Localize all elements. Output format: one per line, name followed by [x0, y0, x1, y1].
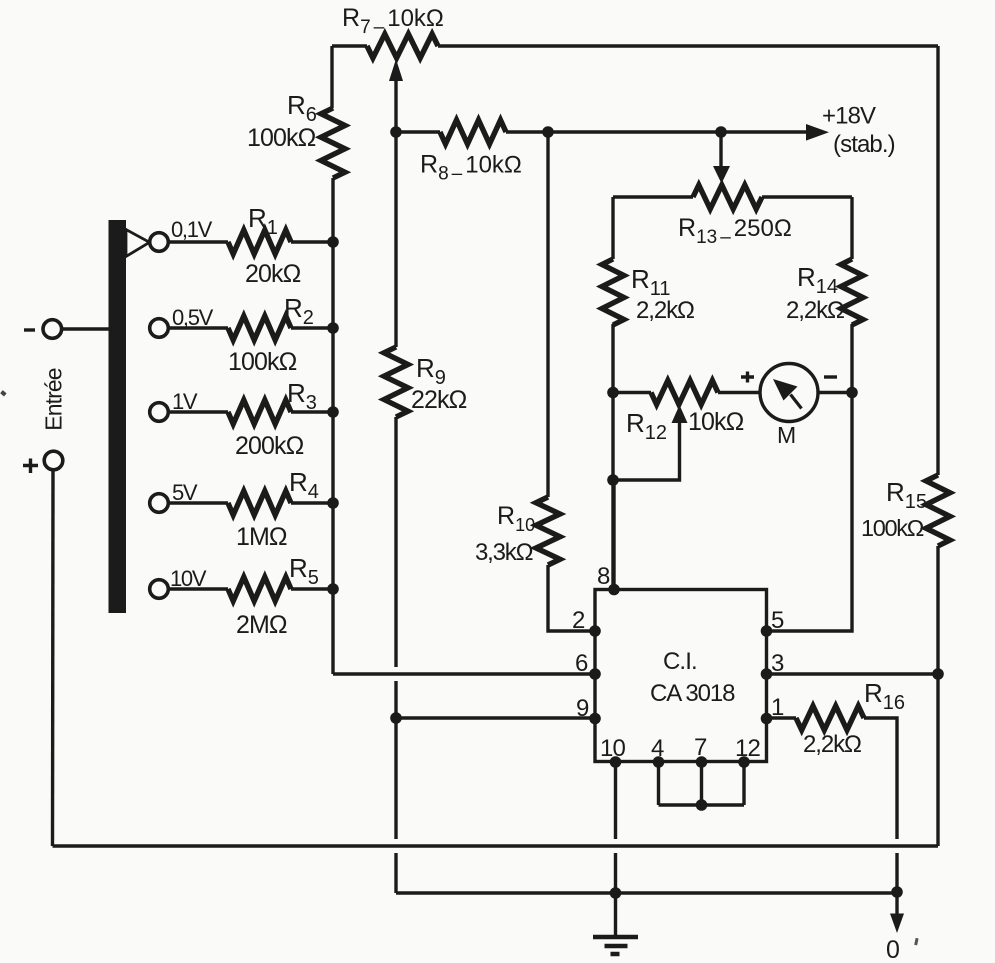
switch contact 10V [150, 580, 169, 599]
resistor R8 body [440, 120, 506, 144]
wire pin12 drop [742, 762, 745, 805]
pin 8 [608, 584, 620, 596]
wire contact to R3 [168, 410, 228, 413]
svg-text:C.I.: C.I. [663, 648, 697, 675]
junction R5-bus [327, 583, 339, 595]
wire strap 4-12 [659, 803, 745, 806]
junction R2-bus [327, 322, 339, 334]
pin 3 [761, 668, 773, 680]
wire zero stem [895, 892, 898, 914]
wire left bus down [331, 178, 334, 674]
svg-text:200kΩ: 200kΩ [235, 432, 304, 460]
pin 10 [610, 756, 622, 768]
resistor R6 body [321, 108, 345, 178]
junction R12 wiper return [607, 474, 619, 486]
svg-text:10V: 10V [170, 566, 207, 591]
svg-text:0,1V: 0,1V [171, 217, 213, 242]
svg-text:10kΩ: 10kΩ [688, 408, 744, 436]
svg-text:3,3kΩ: 3,3kΩ [475, 539, 533, 566]
wire R11 top [611, 197, 614, 259]
wire R16 drop2 [895, 853, 898, 892]
wire R14 down [767, 324, 853, 631]
switch contact 5V [150, 494, 169, 513]
resistor R3 body [228, 400, 291, 424]
resistor R5 body [228, 577, 291, 601]
resistor R4 body [228, 491, 291, 515]
ground [593, 937, 638, 954]
wire R12 to meter [718, 391, 760, 394]
arrow zero [890, 914, 904, 934]
terminal plus [44, 451, 63, 470]
svg-text:Entrée: Entrée [41, 368, 67, 430]
wire pin9 line [396, 716, 595, 719]
wire R8 left [396, 130, 440, 133]
resistor R15 body [926, 475, 950, 546]
svg-text:22kΩ: 22kΩ [411, 386, 467, 414]
resistor R11 body [602, 259, 624, 325]
resistor R10 body [536, 497, 560, 565]
switch contact 1V [150, 403, 169, 422]
junction pin3 right bus [932, 668, 944, 680]
svg-text:8: 8 [597, 563, 610, 590]
wire right bus lower [936, 546, 939, 846]
terminal minus [43, 320, 62, 339]
wire R14 top [850, 197, 853, 259]
wire bottom plus rail [53, 844, 939, 847]
junction R8 tap [390, 126, 402, 138]
label plus sign [23, 459, 38, 474]
wiper arrow of R13 [713, 166, 730, 184]
wire contact to R4 [168, 501, 228, 504]
svg-text:2,2kΩ: 2,2kΩ [786, 297, 844, 324]
pin 12 [738, 756, 750, 768]
label minus sign [24, 328, 35, 331]
wire R4 to bus [291, 501, 333, 504]
junction R3-bus [327, 406, 339, 418]
wire ground rail [396, 891, 897, 894]
wire R12 left lead [613, 391, 651, 394]
resistor R9 body [384, 347, 408, 417]
junction pin9 tap [390, 712, 402, 724]
svg-text:0: 0 [886, 936, 899, 963]
label meter plus [741, 372, 754, 383]
speck left margin [0, 390, 6, 396]
switch wiper triangle [126, 230, 150, 257]
svg-text:(stab.): (stab.) [833, 131, 895, 158]
pin 5 [761, 625, 773, 637]
wire meter to R14 column [818, 391, 852, 394]
speck near 0 [914, 938, 918, 945]
pin 1 [761, 713, 773, 725]
switch contact 0,1V [150, 233, 169, 252]
wire R13 left lead [613, 195, 693, 198]
wire contact to R1 [168, 240, 228, 243]
wire wiper bus low [394, 718, 397, 839]
svg-text:5V: 5V [172, 480, 198, 505]
wire pin3 line [767, 672, 939, 675]
wire R2 to bus [291, 326, 333, 329]
junction R4-bus [327, 497, 339, 509]
wire minus terminal to switch [61, 327, 110, 330]
wire R1 to bus [291, 240, 333, 243]
junction R13 wiper tap [715, 126, 727, 138]
pin 9 [589, 713, 601, 725]
wire pin6 line [333, 672, 595, 675]
resistor R16 body [796, 706, 864, 730]
potentiometer R12 body [651, 381, 718, 405]
wire plus terminal down [51, 470, 55, 846]
pin 7 [696, 756, 708, 768]
resistor R1 body [228, 230, 291, 254]
switch contact 0,5V [150, 319, 169, 338]
wire R12 wiper return [613, 421, 680, 480]
wire left column down [611, 324, 614, 588]
svg-text:2,2kΩ: 2,2kΩ [636, 297, 694, 324]
resistor R14 body [841, 259, 863, 325]
potentiometer R7 body [367, 34, 438, 58]
arrow +18V [806, 124, 829, 141]
wire R16 right [864, 718, 897, 839]
svg-text:100kΩ: 100kΩ [861, 515, 924, 541]
potentiometer R13 body [693, 185, 762, 209]
wire R3 to bus [291, 410, 333, 413]
junction pin10 ground rail [610, 887, 622, 899]
svg-text:10: 10 [600, 735, 625, 762]
wire pin4 drop [657, 762, 660, 805]
wire left bus top [330, 46, 333, 108]
wire pin8 stem [612, 479, 615, 590]
svg-text:1MΩ: 1MΩ [236, 523, 287, 551]
svg-text:+18V: +18V [822, 103, 876, 130]
wire pin1 to R16 [767, 716, 797, 719]
svg-text:100kΩ: 100kΩ [228, 348, 297, 376]
wire wiper bus upper [394, 132, 397, 347]
pin 2 [589, 625, 601, 637]
meter needle [791, 395, 802, 409]
junction meter minus [846, 387, 858, 399]
svg-text:20kΩ: 20kΩ [245, 260, 301, 288]
svg-text:2: 2 [572, 607, 585, 634]
wire contact to R5 [168, 587, 228, 590]
op-amp U1 CA3018 box [595, 590, 767, 762]
svg-text:100kΩ: 100kΩ [247, 124, 316, 152]
wire pin10 drop [614, 762, 617, 839]
wiper arrow of R12 [672, 405, 688, 423]
wire pin7 drop [700, 762, 703, 805]
wire R13 wiper stem [719, 132, 722, 167]
pin 6 [589, 668, 601, 680]
wire wiper bus low2 [394, 853, 397, 893]
pin 4 [653, 756, 665, 768]
svg-text:CA 3018: CA 3018 [650, 680, 735, 707]
junction R12 left [607, 387, 619, 399]
svg-text:M: M [777, 422, 795, 448]
svg-text:2,2kΩ: 2,2kΩ [803, 731, 861, 758]
wire R8 right [506, 130, 807, 133]
svg-text:2MΩ: 2MΩ [236, 611, 287, 639]
wire R5 to bus [291, 587, 333, 590]
wire pin10 drop2 [614, 853, 617, 893]
wire R13 right lead [762, 195, 852, 198]
ground stem [614, 893, 617, 935]
wire wiper bus mid2 [394, 681, 397, 717]
wire top rail left [332, 44, 367, 47]
meter M body [760, 364, 818, 422]
junction R10 top [542, 126, 554, 138]
svg-text:1V: 1V [172, 389, 198, 414]
wire R10 upper [546, 132, 549, 497]
wire wiper bus mid [394, 417, 397, 667]
svg-text:4: 4 [651, 735, 664, 762]
label meter minus [824, 375, 837, 378]
svg-text:0,5V: 0,5V [172, 305, 214, 330]
svg-text:6: 6 [575, 650, 588, 677]
junction zero rail [891, 886, 903, 898]
resistor R2 body [228, 316, 291, 340]
wiper arrow of R7 [389, 59, 403, 81]
switch bar [109, 220, 127, 613]
wire top rail right [438, 44, 938, 47]
svg-text:12: 12 [735, 735, 760, 762]
wire right bus upper [936, 46, 939, 475]
wire R10 lower [548, 565, 595, 631]
svg-text:5: 5 [771, 607, 784, 634]
svg-text:7: 7 [694, 734, 707, 761]
wire contact to R2 [168, 326, 228, 329]
junction strap [696, 799, 708, 811]
junction R1-bus [327, 236, 339, 248]
